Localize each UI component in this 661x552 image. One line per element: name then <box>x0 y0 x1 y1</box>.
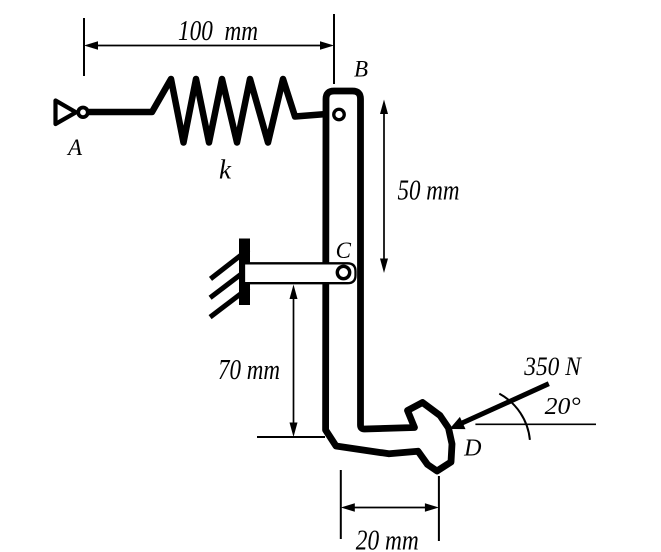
dimension 20 mm arrowhead left <box>341 503 355 511</box>
pin circle B <box>334 109 345 120</box>
dimension 20 mm extension line left <box>340 470 342 539</box>
dimension 100 mm extension line right <box>333 14 335 84</box>
dimension 70 mm arrowhead down <box>290 423 298 438</box>
angle reference horizontal line <box>475 423 596 425</box>
svg-text:A: A <box>66 135 83 160</box>
svg-text:20 mm: 20 mm <box>356 526 419 552</box>
dimension 70 mm tick line <box>257 436 325 438</box>
svg-text:70 mm: 70 mm <box>218 355 280 386</box>
svg-text:C: C <box>336 238 352 263</box>
svg-text:50 mm: 50 mm <box>398 175 460 206</box>
dimension 20 mm line <box>353 507 427 509</box>
link arm from wall to C <box>244 263 356 283</box>
svg-text:100 mm: 100 mm <box>178 16 258 47</box>
svg-text:D: D <box>463 436 481 462</box>
wall hatch 1 <box>211 249 249 279</box>
dimension 70 mm arrow line <box>293 296 295 425</box>
dimension 50 mm arrow line <box>383 112 385 261</box>
wall hatch 3 <box>210 288 249 317</box>
angle arc <box>499 394 530 440</box>
dimension 50 mm arrowhead up <box>380 100 388 115</box>
dimension 100 mm arrowhead left <box>84 41 98 49</box>
wall support bar at C <box>239 239 250 306</box>
force 350 N line <box>461 384 549 424</box>
dimension 100 mm extension line left <box>83 18 85 76</box>
dimension 70 mm arrowhead up <box>290 285 298 300</box>
svg-text:k: k <box>219 155 232 185</box>
lever bar B-C-D with pedal outline <box>326 91 452 471</box>
svg-text:20°: 20° <box>545 394 581 420</box>
anchor pin circle at A <box>78 108 88 118</box>
svg-text:B: B <box>354 57 368 82</box>
dimension 100 mm arrowhead right <box>320 41 334 49</box>
svg-text:350 N: 350 N <box>523 352 582 381</box>
spring k <box>90 79 334 143</box>
dimension 20 mm arrowhead right <box>425 503 439 511</box>
wall hatch 2 <box>210 268 249 297</box>
anchor triangle at A <box>56 101 77 125</box>
pin circle C <box>337 266 349 278</box>
dimension 20 mm extension line right <box>438 476 440 541</box>
force 350 N arrowhead <box>450 417 466 429</box>
dimension 50 mm arrowhead down <box>380 259 388 274</box>
dimension 100 mm line <box>96 45 322 47</box>
